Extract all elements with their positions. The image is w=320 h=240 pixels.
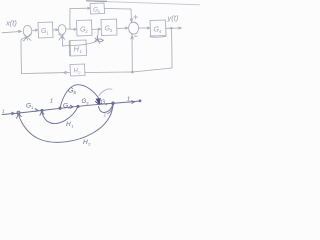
svg-text:1: 1 (50, 99, 53, 105)
svg-text:y(t): y(t) (167, 14, 179, 23)
svg-text:x(t): x(t) (5, 19, 17, 28)
svg-text:1: 1 (127, 97, 130, 103)
